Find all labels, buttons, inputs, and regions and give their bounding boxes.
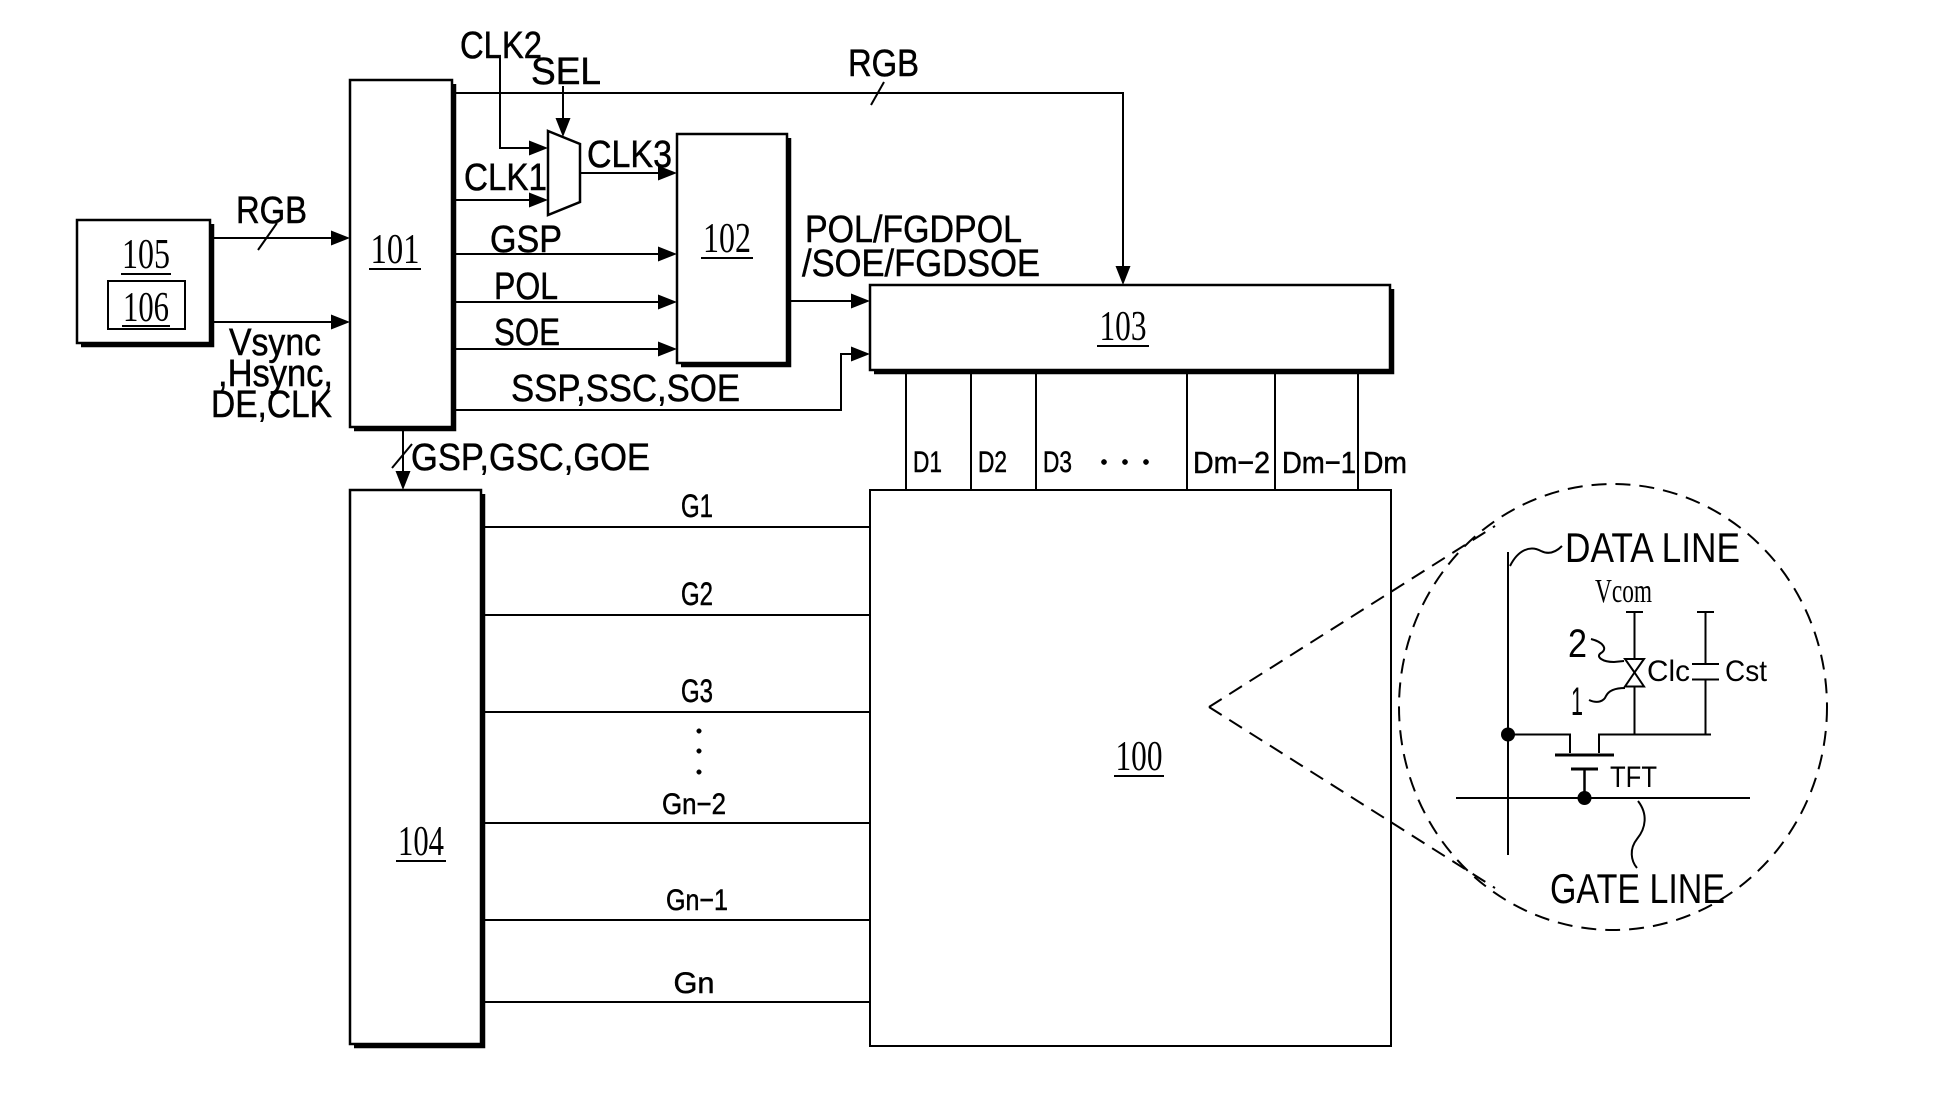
svg-text:101: 101 [371,227,420,273]
wire gate line Gn-1 [483,919,870,921]
wire data line Dm [1357,371,1359,490]
reference numeral 105 [121,232,171,278]
arrowhead RGB into 103 [1116,266,1131,285]
wire RGB from 105 to 101 [210,237,332,239]
svg-text:DE,CLK: DE,CLK [211,384,332,426]
svg-text:1: 1 [1571,680,1583,724]
svg-text:Gn−1: Gn−1 [666,884,728,917]
bus slash on RGB wire to 103 [871,82,884,105]
arrowhead Vsync into 101 [331,315,350,330]
junction dot data line / TFT source [1501,728,1515,742]
wire POL from 101 to 102 [452,301,659,303]
svg-text:Clc: Clc [1647,655,1690,688]
arrowhead SEL into mux [556,118,571,137]
Vcom lead down to Clc [1634,612,1636,659]
wire GSP,GSC,GOE from 101 to 104 [402,429,404,472]
reference numeral 101 [369,227,421,273]
svg-text:GATE LINE: GATE LINE [1550,865,1725,912]
reference numeral 100 [1114,734,1164,780]
svg-text:103: 103 [1100,304,1147,350]
wire data line Dm-1 [1274,371,1276,490]
vertical ellipsis dots between G3 and Gn-2 [697,729,702,775]
junction dot gate line / TFT gate [1578,791,1592,805]
dashed pointer line upper from panel to circle [1209,526,1495,707]
Cst lead down to top plate [1705,612,1707,664]
storage capacitor Cst plates [1692,664,1719,680]
wire data line D1 [905,371,907,490]
svg-text:RGB: RGB [848,43,919,85]
block 101 (timing controller) [350,80,454,429]
label Vsync,Hsync,DE,CLK [211,322,333,426]
block 103 (data driver) [870,285,1392,372]
data line (vertical) in pixel detail [1507,552,1509,855]
svg-text:GSP: GSP [490,219,562,261]
arrowhead POL into 102 [658,295,677,310]
svg-text:TFT: TFT [1610,761,1657,794]
arrowhead SSP,SSC,SOE into 103 [851,347,870,362]
wire CLK1 from 101 to mux [452,199,530,201]
wire data line D2 [970,371,972,490]
Clc lead down to pixel node [1634,687,1636,735]
block 102 (signal modulator) [677,134,789,365]
wire gate line G3 [483,711,870,713]
TFT channel bar [1555,754,1614,757]
svg-text:POL: POL [494,266,558,308]
svg-text:D3: D3 [1043,446,1072,479]
leader squiggle from 1 to Clc bottom [1589,688,1625,702]
bus slash on RGB wire [258,223,277,250]
svg-text:100: 100 [1116,734,1163,780]
liquid crystal capacitor Clc (bowtie symbol) [1625,659,1644,687]
reference numeral 103 [1097,304,1149,350]
svg-text:G3: G3 [681,673,713,709]
svg-text:RGB: RGB [236,190,307,232]
leader squiggle to GATE LINE label [1632,801,1645,868]
wire SSP,SSC,SOE from 101 to 103 [452,354,852,410]
gate line (horizontal) in pixel detail [1456,797,1750,799]
leader squiggle from 2 to Clc top [1591,639,1624,662]
svg-text:/SOE/FGDSOE: /SOE/FGDSOE [802,243,1040,285]
wire Vsync,Hsync,DE,CLK from 105 to 101 [210,321,332,323]
svg-text:Cst: Cst [1725,655,1768,688]
Cst lead down to pixel node [1705,680,1707,735]
block 104 (gate driver) [350,490,483,1046]
svg-text:CLK2: CLK2 [460,25,542,67]
arrowhead SOE into 102 [658,342,677,357]
svg-text:2: 2 [1568,622,1587,666]
svg-text:D1: D1 [913,446,942,479]
svg-text:Dm: Dm [1363,445,1407,480]
wire SEL into mux [562,86,564,120]
svg-text:D2: D2 [978,446,1007,479]
svg-text:G2: G2 [681,576,713,612]
svg-text:106: 106 [123,285,169,331]
svg-text:SEL: SEL [531,51,601,93]
wire from data line to TFT source [1508,735,1570,754]
wire data line D3 [1035,371,1037,490]
svg-text:Gn: Gn [674,967,715,1000]
bus slash on GSP,GSC,GOE wire [392,444,412,468]
Cst terminal bar [1697,611,1714,613]
wire gate line Gn-2 [483,822,870,824]
wire CLK3 from mux to 102 [580,172,659,174]
wire gate line G1 [483,526,870,528]
svg-text:SOE: SOE [494,312,560,354]
svg-text:105: 105 [122,232,170,278]
arrowhead CLK2 into mux [529,141,548,156]
TFT gate stem [1583,770,1586,798]
arrowhead CLK3 into 102 [658,166,677,181]
reference numeral 104 [396,819,446,865]
svg-text:CLK3: CLK3 [587,134,672,176]
svg-text:DATA LINE: DATA LINE [1565,524,1740,571]
svg-text:Dm−1: Dm−1 [1282,445,1356,480]
block 106 (inner block) [108,281,185,329]
wire data line Dm-2 [1186,371,1188,490]
multiplexer (CLK1/CLK2 select mux) [548,131,580,215]
svg-text:104: 104 [398,819,444,865]
arrowhead POL/FGDPOL into 103 [851,294,870,309]
svg-text:Dm−2: Dm−2 [1193,445,1270,480]
arrowhead RGB into 101 [331,231,350,246]
wire GSP from 101 to 102 [452,253,659,255]
leader squiggle to DATA LINE label [1510,546,1562,566]
wire RGB from 101 to 103 [452,93,1123,267]
dashed pointer line lower from panel to circle [1209,707,1495,888]
TFT gate bar [1571,768,1598,771]
wire POL/FGDPOL/SOE/FGDSOE from 102 to 103 [787,300,852,302]
zoom circle (pixel detail view) [1399,484,1827,930]
svg-text:102: 102 [703,216,751,262]
block 100 (liquid crystal display panel) [870,490,1391,1046]
wire gate line Gn [483,1001,870,1003]
block 105 (video source) [77,220,212,345]
svg-text:CLK1: CLK1 [464,157,547,199]
arrowhead CLK1 into mux [529,193,548,208]
svg-text:G1: G1 [681,488,713,524]
Vcom terminal bar [1626,611,1643,613]
wire CLK2 into mux [500,58,530,148]
horizontal ellipsis dots between D3 and Dm-2 [1101,459,1148,464]
svg-text:Gn−2: Gn−2 [662,788,726,821]
svg-text:GSP,GSC,GOE: GSP,GSC,GOE [411,437,650,479]
reference numeral 106 [122,285,170,331]
reference numeral 102 [701,216,753,262]
arrowhead GSP,GSC,GOE into 104 [396,471,411,490]
svg-text:SSP,SSC,SOE: SSP,SSC,SOE [511,368,740,410]
TFT drain stub and wire to capacitors [1599,735,1711,754]
wire gate line G2 [483,614,870,616]
arrowhead GSP into 102 [658,247,677,262]
wire SOE from 101 to 102 [452,348,659,350]
svg-text:Vcom: Vcom [1595,573,1652,610]
